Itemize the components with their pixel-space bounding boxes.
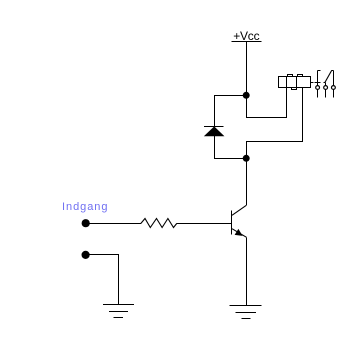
coil internal pin 2 xyxy=(296,77,298,88)
ground GND2 bar 2 xyxy=(236,312,257,314)
contact terminal 2 lower lead xyxy=(325,89,327,97)
coil top tab 2 xyxy=(298,75,303,77)
contact terminal 3 top hook xyxy=(332,70,334,72)
wire node A to relay coil left terminal xyxy=(247,88,287,118)
wire emitter to ground xyxy=(246,237,248,305)
contact terminal 2 circle xyxy=(324,86,328,90)
input terminal 1 xyxy=(82,219,90,227)
ground GND2 bar 1 xyxy=(230,305,262,307)
contact terminal 3 upper lead xyxy=(333,71,335,86)
svg-text:+Vcc: +Vcc xyxy=(233,29,259,43)
wire terminal 1 to resistor xyxy=(86,223,141,225)
power rail bar xyxy=(232,41,262,43)
mechanical linkage dash 2 xyxy=(315,82,321,84)
wire relay coil right terminal to node B xyxy=(247,88,303,159)
coil top tab 1 xyxy=(288,75,293,77)
contact terminal 3 lower lead xyxy=(333,89,335,97)
contact terminal 1 top hook xyxy=(318,70,321,72)
node B xyxy=(243,155,250,162)
wire node B to collector xyxy=(246,158,248,205)
wire diode bottom to node B xyxy=(215,136,247,159)
diode D1 body xyxy=(205,127,224,136)
contact terminal 1 upper lead xyxy=(317,71,319,86)
relay coil K1 box xyxy=(279,77,311,88)
ground GND1 bar 2 xyxy=(109,311,128,313)
transistor Q1 emitter arrow xyxy=(235,229,243,236)
resistor R1 xyxy=(141,219,177,228)
coil bottom tab xyxy=(292,88,297,90)
mechanical linkage dash 1 xyxy=(311,82,314,84)
contact terminal 1 circle xyxy=(316,86,320,90)
wire Vcc to node A xyxy=(246,42,248,96)
transistor Q1 base bar xyxy=(231,211,233,235)
svg-text:Indgang: Indgang xyxy=(62,201,108,213)
transistor Q1 collector diagonal xyxy=(232,205,247,215)
coil internal pin 1 xyxy=(286,77,288,88)
contact terminal 1 lower lead xyxy=(317,89,319,97)
mechanical linkage dash 3 xyxy=(324,82,326,84)
diode D1 cathode bar xyxy=(204,126,224,128)
ground GND1 bar 1 xyxy=(103,304,134,306)
transistor Q1 emitter diagonal xyxy=(232,229,247,238)
wire terminal 2 to ground xyxy=(86,255,119,305)
wire node A to diode top xyxy=(215,96,247,127)
switch arm diagonal xyxy=(325,70,332,83)
wire resistor to base xyxy=(177,223,232,225)
node A xyxy=(243,92,250,99)
input terminal 2 xyxy=(82,251,90,259)
contact terminal 2 stub xyxy=(325,83,327,86)
ground GND2 bar 3 xyxy=(242,318,251,320)
contact terminal 3 circle xyxy=(332,86,336,90)
ground GND1 bar 3 xyxy=(114,317,123,319)
